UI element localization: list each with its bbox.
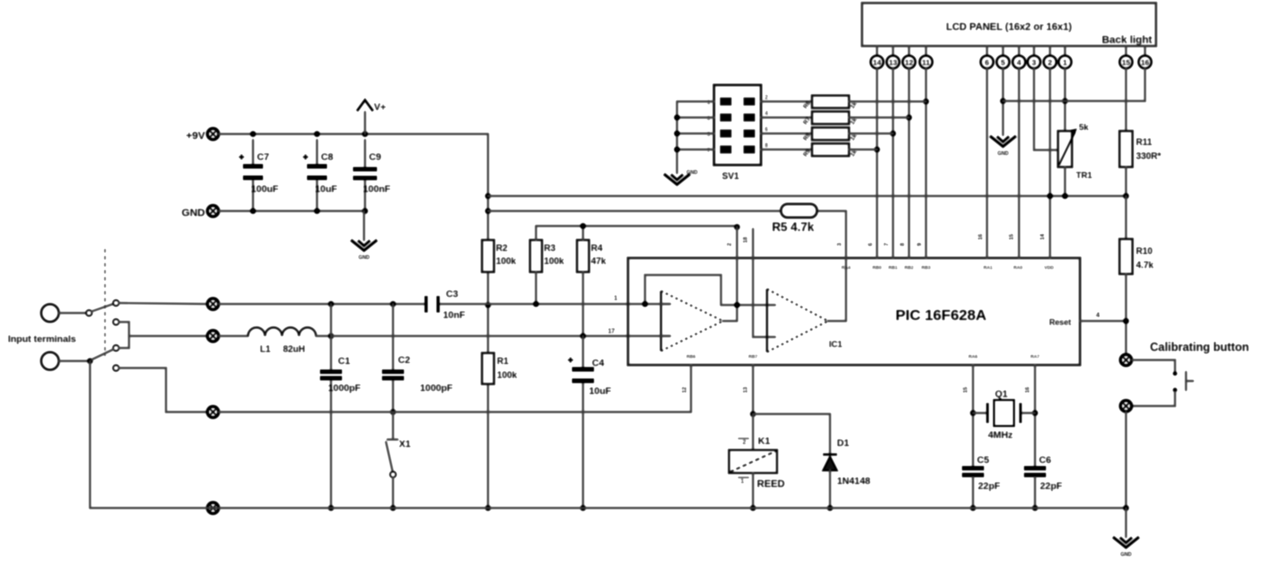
wire below R2 bbox=[487, 272, 489, 305]
capacitor C4 10uF bbox=[582, 336, 584, 367]
svg-text:6: 6 bbox=[868, 243, 874, 246]
LCD pin 6 stub bbox=[986, 46, 988, 56]
svg-text:8: 8 bbox=[900, 243, 906, 246]
svg-text:7: 7 bbox=[884, 243, 890, 246]
wire SV1 pin5 bbox=[677, 132, 714, 134]
wire SV1 pin7 bbox=[677, 148, 714, 150]
wire below R1 to ground rail bbox=[487, 384, 489, 508]
junction C1 top bbox=[328, 301, 334, 307]
svg-text:VDD: VDD bbox=[1044, 265, 1054, 270]
svg-text:10uF: 10uF bbox=[589, 386, 611, 397]
terminal +9V input bbox=[207, 128, 218, 139]
switch X1 relay contact bbox=[392, 412, 394, 438]
op-amp comparator 2 bbox=[767, 289, 828, 352]
IC IC1 PIC 16F628A box bbox=[628, 258, 1080, 365]
svg-text:R3: R3 bbox=[544, 243, 556, 253]
wire +9V rail bbox=[219, 133, 488, 135]
wire below node to R1 bbox=[487, 305, 489, 353]
wire feedback vertical bbox=[736, 227, 738, 321]
junction SV1 gnd c bbox=[674, 147, 680, 153]
terminal 1 oscillator bbox=[207, 298, 218, 309]
resistor R9 1k bbox=[812, 144, 849, 157]
button contact top bbox=[1173, 371, 1177, 375]
wire TR1 bottom bbox=[1064, 167, 1066, 196]
wire SV1 pin2 out bbox=[761, 100, 812, 102]
junction C6 ground bbox=[1032, 505, 1038, 511]
LCD pin 1 stub bbox=[1064, 46, 1066, 56]
wire LCD D7 line bbox=[876, 68, 878, 258]
terminal calibrate bottom bbox=[1120, 400, 1131, 411]
svg-text:RA0: RA0 bbox=[1013, 265, 1022, 270]
wire ground return vertical bbox=[89, 361, 91, 508]
svg-text:Back light: Back light bbox=[1102, 34, 1153, 46]
junction feedback corner bbox=[734, 224, 740, 230]
wire feedback loop over comparator1 bbox=[645, 275, 721, 305]
wire R3 top bbox=[535, 226, 537, 240]
svg-text:1000pF: 1000pF bbox=[420, 383, 453, 394]
svg-text:C9: C9 bbox=[369, 152, 381, 163]
junction C2/X1 node bbox=[390, 409, 396, 415]
svg-text:C3: C3 bbox=[446, 289, 458, 300]
wire LCD D5 line bbox=[908, 68, 910, 258]
svg-text:100k: 100k bbox=[544, 256, 565, 266]
terminal 3 guard bbox=[207, 406, 218, 417]
wire L1 node line to comparator bbox=[331, 335, 670, 337]
inductor L1 82uH bbox=[248, 328, 316, 337]
ground symbol SV1 bbox=[664, 170, 698, 185]
junction SV1 gnd a bbox=[674, 115, 680, 121]
svg-text:RA6: RA6 bbox=[968, 354, 977, 359]
svg-text:3: 3 bbox=[837, 243, 843, 246]
wire comparator2 output bbox=[828, 320, 846, 322]
svg-text:R2: R2 bbox=[496, 243, 508, 253]
wire backlight anode bbox=[1125, 68, 1127, 131]
svg-text:R5 4.7k: R5 4.7k bbox=[772, 220, 814, 234]
svg-text:18: 18 bbox=[743, 237, 749, 243]
svg-text:RB6: RB6 bbox=[686, 354, 695, 359]
svg-text:10nF: 10nF bbox=[443, 310, 465, 321]
junction C5 ground bbox=[970, 505, 976, 511]
LCD pin 1 bbox=[1059, 56, 1072, 69]
svg-text:GND: GND bbox=[1120, 552, 1132, 558]
wire terminal2 to L1 bbox=[219, 335, 248, 337]
junction C1 ground bbox=[328, 505, 334, 511]
svg-text:REED: REED bbox=[757, 479, 785, 490]
svg-text:4.7k: 4.7k bbox=[1136, 260, 1155, 270]
svg-text:IC1: IC1 bbox=[829, 339, 843, 349]
svg-text:1N4148: 1N4148 bbox=[837, 476, 870, 487]
LCD pin 11 stub bbox=[925, 46, 927, 56]
junction X1 ground bbox=[390, 505, 396, 511]
svg-text:Q1: Q1 bbox=[995, 389, 1008, 400]
svg-text:2: 2 bbox=[727, 243, 733, 246]
svg-text:C2: C2 bbox=[398, 355, 410, 366]
svg-text:14: 14 bbox=[1040, 233, 1046, 240]
svg-text:16: 16 bbox=[1025, 387, 1031, 393]
switch contact d bbox=[113, 365, 119, 371]
junction comparator bias node bbox=[485, 302, 491, 308]
capacitor C6 22pF bbox=[1024, 466, 1046, 477]
svg-text:RA1: RA1 bbox=[983, 265, 992, 270]
svg-text:15: 15 bbox=[1122, 58, 1130, 67]
wire LCD RS line bbox=[1018, 68, 1020, 258]
comparator1 input stubs bbox=[661, 303, 670, 305]
svg-text:82uH: 82uH bbox=[283, 344, 305, 354]
svg-text:22pF: 22pF bbox=[978, 481, 1000, 492]
ground symbol below C9 bbox=[363, 211, 365, 240]
wire LCD VO to trimmer bbox=[1034, 68, 1058, 150]
svg-text:10uF: 10uF bbox=[315, 184, 337, 195]
svg-text:17: 17 bbox=[608, 329, 615, 335]
resistor R8 1k bbox=[812, 128, 849, 141]
svg-text:15: 15 bbox=[1009, 234, 1015, 240]
wire R11 bottom bbox=[1125, 167, 1127, 196]
LCD backlight pin 16 stub bbox=[1144, 46, 1146, 56]
svg-text:RB1: RB1 bbox=[888, 265, 897, 270]
svg-text:GND: GND bbox=[182, 207, 206, 219]
wire jack1 to switch pole bbox=[59, 312, 86, 314]
wire contact d to terminal 3 bbox=[119, 368, 206, 412]
capacitor C9 100nF bbox=[364, 140, 366, 167]
button contact bottom bbox=[1173, 388, 1177, 392]
svg-text:100uF: 100uF bbox=[251, 184, 279, 195]
svg-text:100k: 100k bbox=[496, 256, 517, 266]
junction R4/C4 node bbox=[580, 333, 586, 339]
svg-text:+9V: +9V bbox=[186, 130, 205, 142]
connector SV1 bbox=[714, 85, 761, 165]
junction D4 tap bbox=[923, 99, 929, 105]
junction ground rail end bbox=[1123, 505, 1129, 511]
capacitor C5 22pF bbox=[962, 466, 984, 477]
svg-text:R4: R4 bbox=[591, 243, 603, 253]
svg-text:2: 2 bbox=[765, 95, 768, 101]
LCD pin 13 bbox=[887, 56, 900, 69]
wire SV1 ground bus bbox=[676, 102, 678, 174]
switch X2 mechanical link bbox=[104, 249, 106, 356]
push button actuator bbox=[1185, 372, 1187, 390]
svg-text:RB7: RB7 bbox=[748, 354, 757, 359]
wire R10 top bbox=[1125, 196, 1127, 239]
resistor R7 1k bbox=[812, 112, 849, 125]
resistor R4 47k bbox=[577, 240, 589, 272]
ground symbol LCD RW bbox=[990, 136, 1016, 157]
svg-text:C6: C6 bbox=[1039, 455, 1051, 466]
wire contact a to terminal 1 bbox=[119, 303, 206, 304]
junction TR1 ground bbox=[1062, 193, 1068, 199]
svg-text:14: 14 bbox=[873, 58, 882, 67]
junction V+ rail tap 1 bbox=[485, 193, 491, 199]
wire R6 to D4 line bbox=[849, 100, 926, 102]
svg-text:1000pF: 1000pF bbox=[328, 383, 361, 394]
svg-text:RA4: RA4 bbox=[841, 265, 850, 270]
wire SV1 pin1 bbox=[677, 100, 714, 102]
wire backlight contrast link bbox=[1003, 68, 1145, 101]
wire PIC pin12 stub bbox=[690, 365, 692, 412]
wire L1 to C1 node bbox=[316, 335, 331, 337]
LCD pin 12 bbox=[903, 56, 916, 69]
svg-text:12: 12 bbox=[682, 387, 688, 393]
svg-text:X1: X1 bbox=[399, 439, 411, 450]
wire R10 bottom bbox=[1125, 274, 1127, 354]
junction reset node bbox=[1123, 318, 1129, 324]
svg-text:C5: C5 bbox=[977, 455, 990, 466]
wire LCD RW stub bbox=[1002, 68, 1004, 135]
junction C8 bottom bbox=[314, 208, 320, 214]
svg-text:11: 11 bbox=[922, 58, 930, 67]
junction R1 ground bbox=[485, 505, 491, 511]
svg-text:RB0: RB0 bbox=[872, 265, 881, 270]
svg-text:4MHz: 4MHz bbox=[988, 430, 1013, 441]
svg-text:4: 4 bbox=[765, 111, 768, 117]
op-amp comparator 1 bbox=[661, 291, 723, 351]
junction C4 ground bbox=[580, 505, 586, 511]
wire button top bbox=[1132, 360, 1175, 371]
junction C9 bottom bbox=[362, 208, 368, 214]
LCD pin 2 stub bbox=[1049, 46, 1051, 56]
trimmer TR1 5k bbox=[1058, 131, 1072, 167]
LCD pin 14 stub bbox=[876, 46, 878, 56]
wire jack2 to ground bbox=[59, 360, 90, 362]
svg-text:13: 13 bbox=[743, 387, 749, 393]
switch blade 2 bbox=[92, 350, 113, 360]
svg-text:C1: C1 bbox=[338, 356, 351, 367]
wire to diode D1 bbox=[753, 413, 830, 415]
svg-text:PIC 16F628A: PIC 16F628A bbox=[896, 307, 987, 324]
switch X2 pole contact bbox=[86, 310, 92, 316]
LCD pin 2 bbox=[1044, 56, 1057, 69]
svg-text:3: 3 bbox=[1032, 58, 1036, 67]
wire LCD E line bbox=[986, 68, 988, 258]
capacitor C3 10nF bbox=[425, 296, 428, 313]
resistor R3 100k bbox=[530, 240, 542, 272]
junction L1/C1 node bbox=[328, 333, 334, 339]
junction VSS node bbox=[1062, 98, 1068, 104]
wire R8 to D6 line bbox=[849, 132, 893, 134]
wire calibrate to ground bbox=[1125, 412, 1127, 508]
wire R4 bottom bbox=[582, 272, 584, 336]
wire guard rail bbox=[219, 411, 691, 413]
wire SV1 pin4 out bbox=[761, 116, 812, 118]
LCD backlight pin 15 stub bbox=[1125, 46, 1127, 56]
junction crystal left bbox=[970, 410, 976, 416]
wire V+ vertical feed bbox=[487, 134, 489, 240]
wire comparator1 output bbox=[723, 320, 737, 322]
svg-text:L1: L1 bbox=[260, 344, 271, 354]
LCD pin 13 stub bbox=[892, 46, 894, 56]
svg-text:TR1: TR1 bbox=[1076, 170, 1092, 180]
junction feedback crossing bbox=[734, 302, 740, 308]
LCD pin 11 bbox=[920, 56, 933, 69]
svg-text:D1: D1 bbox=[837, 438, 850, 449]
switch contact a bbox=[113, 300, 119, 306]
junction R4 top tap bbox=[580, 223, 586, 229]
svg-text:RB2: RB2 bbox=[904, 265, 913, 270]
terminal 4 ground bbox=[207, 502, 218, 513]
capacitor C7 100uF bbox=[252, 140, 254, 164]
LCD pin 5 bbox=[997, 56, 1010, 69]
wire PIC pin13 stub bbox=[752, 365, 754, 414]
svg-text:2: 2 bbox=[1048, 58, 1052, 67]
input jack top bbox=[41, 304, 59, 322]
junction jack2 node bbox=[87, 358, 93, 364]
junction D7 tap bbox=[874, 147, 880, 153]
relay K1 REED bbox=[752, 414, 754, 450]
svg-text:Input terminals: Input terminals bbox=[8, 334, 76, 345]
wire LCD D4 line bbox=[925, 68, 927, 258]
wire ground rail bbox=[90, 507, 1126, 509]
wire R9 to D7 line bbox=[849, 148, 877, 150]
wire node line after C3 bbox=[440, 303, 670, 305]
svg-text:5k: 5k bbox=[1079, 122, 1089, 132]
junction V+ rail tap 2 bbox=[485, 208, 491, 214]
wire PIC pin15 stub bbox=[972, 365, 974, 466]
crystal Q1 4MHz bbox=[973, 412, 986, 414]
svg-text:C4: C4 bbox=[592, 358, 605, 369]
junction C2 top bbox=[390, 301, 396, 307]
junction VDD tap bbox=[1047, 193, 1053, 199]
svg-text:C7: C7 bbox=[257, 152, 269, 163]
terminal GND input bbox=[207, 205, 218, 216]
svg-text:LCD PANEL (16x2 or 16x1): LCD PANEL (16x2 or 16x1) bbox=[946, 22, 1072, 33]
capacitor C2 1000pF bbox=[392, 304, 394, 369]
wire SV1 pin6 out bbox=[761, 132, 812, 134]
svg-text:8: 8 bbox=[765, 143, 768, 149]
resistor R11 330R bbox=[1120, 131, 1133, 167]
wire LCD VSS to trimmer top bbox=[1064, 68, 1066, 131]
junction D5 tap bbox=[906, 115, 912, 121]
svg-text:K1: K1 bbox=[758, 436, 771, 447]
wire bracket to terminal 2 bbox=[129, 335, 206, 337]
junction D6 tap bbox=[890, 131, 896, 137]
svg-text:SV1: SV1 bbox=[722, 171, 739, 181]
svg-text:Reset: Reset bbox=[1049, 318, 1071, 327]
LCD panel box bbox=[862, 3, 1156, 46]
svg-text:9: 9 bbox=[917, 243, 923, 246]
junction relay/diode node bbox=[750, 411, 756, 417]
LCD pin 3 stub bbox=[1033, 46, 1035, 56]
wire R4 top bbox=[582, 227, 584, 240]
wire comparator2 -input feed bbox=[753, 229, 775, 337]
svg-text:RA7: RA7 bbox=[1030, 354, 1039, 359]
switch contact c bbox=[113, 345, 119, 351]
svg-text:RB3: RB3 bbox=[921, 265, 930, 270]
wire button bottom bbox=[1132, 392, 1175, 406]
junction feedback to input bbox=[642, 301, 648, 307]
junction relay ground bbox=[750, 505, 756, 511]
svg-text:5: 5 bbox=[1001, 58, 1005, 67]
capacitor C1 1000pF bbox=[330, 304, 332, 369]
switch X2 blade bbox=[92, 304, 114, 312]
ground symbol main bbox=[1125, 508, 1127, 537]
resistor R10 4.7k bbox=[1120, 239, 1133, 274]
junction C7 top bbox=[250, 131, 256, 137]
svg-text:16: 16 bbox=[1141, 58, 1149, 67]
LCD backlight pin 15 bbox=[1120, 56, 1133, 69]
svg-text:GND: GND bbox=[358, 255, 370, 261]
svg-text:13: 13 bbox=[889, 58, 897, 67]
resistor R1 100k bbox=[482, 353, 494, 384]
wire LCD VDD line bbox=[1049, 68, 1051, 258]
junction C7 bottom bbox=[250, 208, 256, 214]
junction SV1 gnd b bbox=[674, 131, 680, 137]
svg-text:6: 6 bbox=[765, 127, 768, 133]
wire GND rail bbox=[219, 210, 364, 212]
wire D1 top bbox=[829, 414, 831, 454]
junction RW node bbox=[1000, 98, 1006, 104]
terminal 2 inductor bbox=[207, 330, 218, 341]
resistor R5 4.7k bbox=[781, 204, 817, 218]
svg-text:100k: 100k bbox=[497, 370, 518, 380]
junction D1 ground bbox=[827, 505, 833, 511]
wire PIC pin4 reset bbox=[1080, 320, 1126, 322]
wire SV1 pin3 bbox=[677, 116, 714, 118]
junction R3 node bbox=[533, 301, 539, 307]
terminal calibrate top bbox=[1120, 354, 1131, 365]
svg-text:330R*: 330R* bbox=[1136, 151, 1162, 161]
svg-text:1: 1 bbox=[1063, 58, 1067, 67]
wire PIC pin16 stub bbox=[1034, 365, 1036, 466]
svg-text:47k: 47k bbox=[591, 256, 607, 266]
svg-text:R10: R10 bbox=[1136, 246, 1153, 256]
switch contact b bbox=[113, 319, 119, 325]
wire R3 bottom bbox=[535, 272, 537, 304]
wire V+ to R5 to comparator bbox=[488, 210, 846, 212]
wire LCD D6 line bbox=[892, 68, 894, 258]
wire R7 to D5 line bbox=[849, 116, 909, 118]
LCD pin 4 bbox=[1013, 56, 1026, 69]
wire loop to comparator2 +input bbox=[721, 304, 775, 306]
svg-text:V+: V+ bbox=[374, 102, 386, 113]
junction R11 rail bbox=[1123, 193, 1129, 199]
svg-text:Calibrating button: Calibrating button bbox=[1150, 342, 1249, 354]
svg-text:16: 16 bbox=[978, 234, 984, 240]
LCD pin 6 bbox=[981, 56, 994, 69]
resistor R2 100k bbox=[482, 240, 494, 272]
LCD pin 5 stub bbox=[1002, 46, 1004, 56]
svg-text:4: 4 bbox=[1096, 312, 1100, 319]
svg-text:R11: R11 bbox=[1136, 137, 1152, 147]
svg-text:6: 6 bbox=[985, 58, 989, 67]
wire contact b-c bracket bbox=[119, 322, 129, 348]
LCD pin 14 bbox=[871, 56, 884, 69]
LCD pin 12 stub bbox=[908, 46, 910, 56]
wire distribution rail bbox=[488, 195, 1126, 197]
junction C8 top bbox=[314, 131, 320, 137]
resistor R6 1k bbox=[812, 96, 849, 109]
diode D1 1N4148 bbox=[823, 457, 837, 471]
wire terminal1 to node line bbox=[219, 303, 426, 305]
svg-text:22pF: 22pF bbox=[1040, 481, 1062, 492]
svg-text:C8: C8 bbox=[321, 152, 333, 163]
junction crystal right bbox=[1032, 410, 1038, 416]
svg-text:100nF: 100nF bbox=[363, 184, 391, 195]
LCD backlight pin 16 bbox=[1139, 56, 1152, 69]
svg-text:GND: GND bbox=[997, 151, 1009, 157]
input jack bottom bbox=[41, 352, 59, 370]
wire comparator2 output to R5 bbox=[845, 211, 847, 321]
svg-text:R1: R1 bbox=[497, 356, 509, 366]
supply symbol V+ bbox=[364, 112, 366, 134]
capacitor C8 10uF bbox=[316, 140, 318, 164]
wire SV1 pin8 out bbox=[761, 148, 812, 150]
junction C9 top / V+ node bbox=[362, 131, 368, 137]
svg-text:GND: GND bbox=[686, 170, 698, 176]
svg-text:15: 15 bbox=[963, 387, 969, 393]
svg-text:12: 12 bbox=[905, 58, 913, 67]
LCD pin 4 stub bbox=[1018, 46, 1020, 56]
wire feedback top bbox=[536, 225, 737, 227]
LCD pin 3 bbox=[1028, 56, 1041, 69]
